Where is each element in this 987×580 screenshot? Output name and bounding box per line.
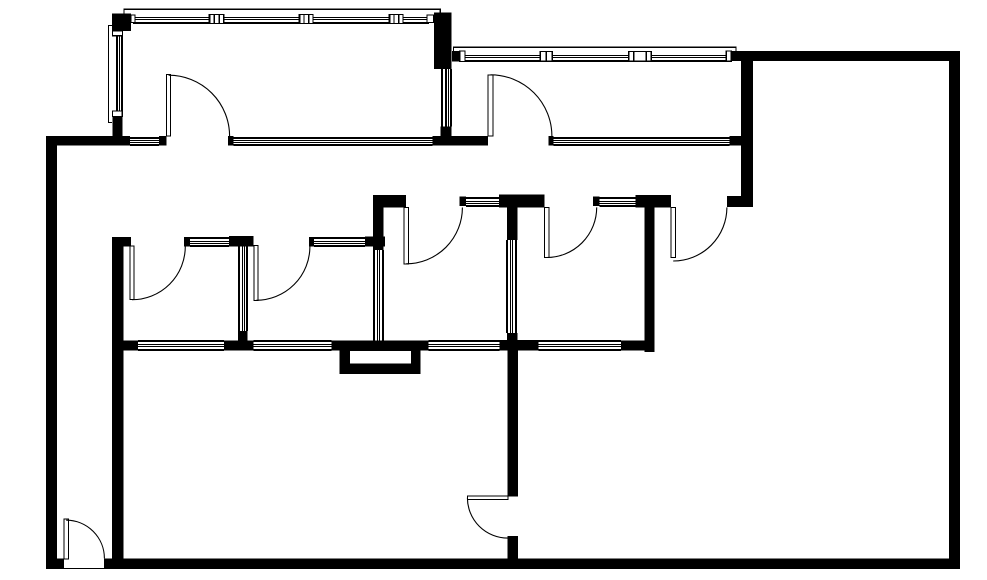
window W5 glazing (between rooms 1 and 2) (441, 69, 452, 127)
door DG swing arc (66, 520, 104, 558)
wall central lower piece (507, 536, 518, 559)
door opening gap in bottom wall (64, 558, 104, 568)
door DA leaf (room A) (130, 246, 134, 300)
window W6 glazing lines (room 2 top) (462, 55, 728, 62)
window W13 sill (room B bottom) (254, 340, 332, 351)
door D2 swing arc (491, 75, 552, 136)
wall exterior left (46, 136, 57, 569)
wall segment below partition A/B (224, 340, 253, 350)
door DF swing arc (467, 498, 507, 538)
door DD leaf (room D) (544, 207, 549, 257)
partition rooms C/D black upper (507, 207, 517, 240)
window W8 sill (room A top) (190, 237, 229, 247)
wall segment below rooms B/C with flue (332, 340, 429, 350)
wall cap below window W2 (112, 116, 122, 136)
door DG leaf (exterior bottom-left) (64, 519, 68, 559)
window W2 outer sill line (room 1 left) (108, 25, 112, 122)
window W6 end jamb (726, 51, 731, 61)
wall block room B top-right (365, 237, 385, 247)
wall cap below window W5 (441, 127, 452, 137)
window W1 mullion 1 (209, 14, 225, 24)
flue duct bump inner hole (350, 351, 411, 364)
window W2 bottom jamb (112, 111, 122, 116)
wall segment below room A left (112, 340, 138, 350)
partition rooms B/C glazed (373, 250, 384, 342)
window W1 outer sill line (top) (124, 9, 440, 14)
window W12 sill (room A bottom) (138, 340, 224, 351)
window W2 top jamb (112, 31, 122, 36)
door DE swing arc (673, 207, 727, 261)
window W7 sill (room 2 bottom) (553, 137, 729, 146)
partition rooms C/D glazed (506, 240, 517, 333)
wall cap right of door D1 (228, 136, 234, 145)
wall segment rooms 1-2 bottom junction (432, 136, 488, 145)
wall cap left of door D1 (159, 136, 166, 145)
wall chunk at window W6 start (452, 51, 460, 61)
wall block between rooms 1 and 2 (434, 12, 452, 69)
partition rooms A/B glazed (238, 246, 248, 330)
wall block rooms C/D top junction (499, 195, 544, 208)
wall room 2 bottom right segment (730, 136, 753, 145)
wall block room A top-left (112, 237, 131, 247)
window W9 sill (room B top) (314, 237, 365, 247)
door DF leaf (central wall) (467, 496, 507, 499)
door D2 leaf (room 2) (488, 75, 493, 136)
wall central (between lower rooms) (507, 350, 518, 496)
wall cross junction at central wall (499, 340, 538, 350)
window W2 glazing lines (room 1 left) (116, 36, 123, 112)
door DC swing arc (406, 208, 462, 264)
window W1 glazing lines (room 1 top) (133, 17, 429, 24)
window W6 mullion 2 (628, 51, 652, 62)
wall cap left of window W8 (184, 237, 190, 247)
wall cap left of window W10 (460, 197, 467, 207)
wall room C top-left segment (373, 195, 406, 208)
window W3 sill left of door D1 (130, 137, 159, 146)
wall exterior top-right (731, 51, 960, 61)
door D1 leaf (room 1) (167, 74, 171, 136)
door DB swing arc (256, 247, 310, 301)
door DB leaf (room B) (254, 245, 258, 300)
wall cap left of window W11 (593, 197, 600, 207)
door DE leaf (corridor east) (671, 207, 675, 257)
wall interior left (vertical) (112, 237, 123, 558)
window W1 mullion 2 (299, 14, 314, 24)
window W14 sill (room C bottom) (429, 340, 500, 351)
door DA swing arc (132, 246, 185, 299)
partition rooms B/C black upper (373, 195, 383, 250)
wall interior right of room 2 (741, 61, 753, 197)
window W6 mullion 1 (539, 51, 553, 62)
flue duct bump outline (340, 344, 421, 374)
wall room D top-right segment (635, 195, 671, 207)
wall cap left of window W9 (309, 237, 314, 247)
partition rooms C/D black lower (507, 333, 517, 350)
wall exterior right (949, 51, 960, 569)
door DC leaf (room C) (404, 207, 408, 263)
wall segment below room D right (621, 340, 654, 350)
window W1 start jamb (131, 15, 135, 22)
wall exterior left top stub (46, 136, 130, 145)
window W15 sill (room D bottom) (539, 340, 622, 351)
door DD swing arc (547, 207, 597, 257)
window W1 mullion 3 (389, 14, 404, 24)
wall cap right of door D2 (549, 136, 554, 145)
window W1 end jamb (427, 15, 434, 22)
window W10 sill (room C top) (466, 197, 499, 207)
wall foot at corridor door (727, 196, 753, 207)
wall exterior bottom (46, 558, 960, 568)
door D1 swing arc (169, 75, 230, 136)
wall block between rooms A and B (top) (229, 236, 254, 247)
wall corner block top-left of room 1 (112, 14, 131, 32)
window W11 sill (room D top) (600, 197, 636, 207)
partition rooms A/B bottom cap (238, 331, 248, 341)
window W4 sill (room 1 bottom) (234, 137, 433, 146)
wall room D right (vertical) (645, 195, 655, 352)
window W6 outer sill line (room 2 top) (454, 47, 736, 51)
window W6 start jamb (460, 51, 465, 62)
